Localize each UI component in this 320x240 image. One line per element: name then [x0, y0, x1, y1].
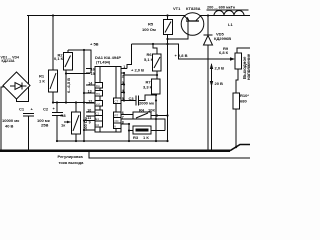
resistor R1 1K	[49, 16, 58, 103]
node dot divider mid	[156, 74, 158, 76]
svg-text:680: 680	[240, 99, 247, 104]
pin gnd stub	[84, 129, 95, 131]
wire feedback line	[132, 44, 232, 59]
node dots R4 right	[166, 114, 168, 116]
IC DA1 TL494 body	[95, 66, 121, 132]
label R7	[143, 80, 153, 90]
capacitor C2 100uF 25V	[52, 103, 63, 142]
resistor R2 0.1K	[64, 50, 73, 103]
label R5	[142, 22, 156, 33]
node dot R8 top	[75, 101, 77, 103]
label C3 2000	[129, 96, 154, 106]
pin 4	[121, 92, 124, 94]
node dot R1 bottom	[52, 101, 54, 103]
svg-text:VT1: VT1	[173, 6, 181, 11]
pin 8	[121, 123, 129, 125]
wire base junction to VT1 base	[168, 35, 189, 39]
label R9	[219, 46, 229, 55]
label VD1...VD4 КД213А	[1, 55, 20, 63]
IC service boxes left column	[95, 83, 103, 128]
svg-text:R8: R8	[61, 113, 67, 118]
svg-text:CT: CT	[115, 100, 119, 104]
wire pin2 vertical to divider and C3	[123, 73, 125, 101]
svg-text:6,8 К: 6,8 К	[219, 50, 229, 55]
svg-text:R10*: R10*	[240, 93, 249, 98]
node dot R2 bottom	[65, 101, 67, 103]
wire bridge bottom corner to C1	[17, 99, 29, 102]
svg-text:C1: C1	[96, 112, 100, 116]
node dot R2 bottom junction	[65, 72, 67, 74]
wire secondary ground W1	[57, 140, 168, 142]
svg-text:E1: E1	[96, 117, 100, 121]
svg-text:1к: 1к	[61, 123, 65, 128]
svg-text:10000 мк: 10000 мк	[2, 118, 19, 123]
svg-text:10К: 10К	[148, 108, 155, 113]
svg-text:12: 12	[88, 100, 92, 104]
node dot on W3 crossing	[83, 101, 85, 103]
svg-text:Регулировка: Регулировка	[58, 154, 84, 159]
svg-text:R3: R3	[133, 135, 139, 140]
svg-text:6: 6	[122, 111, 124, 115]
wire long vertical from +5V node down to gnd wire	[83, 50, 85, 141]
pin 2	[121, 72, 124, 74]
IC service boxes right column	[114, 98, 122, 129]
wire riser rail to bridge plus corner and C1	[28, 16, 30, 103]
svg-text:ПЧ: ПЧ	[96, 92, 100, 96]
node dot +5V branch	[83, 49, 85, 51]
svg-text:КД2996В: КД2996В	[214, 36, 231, 41]
wire +5V from R2 top to IC pins 16/15	[68, 50, 91, 73]
svg-text:25В: 25В	[41, 123, 48, 128]
svg-text:5,1 К: 5,1 К	[144, 57, 154, 62]
node dots on bus	[27, 150, 29, 152]
label C2	[37, 106, 56, 128]
pin 13	[84, 92, 95, 94]
svg-text:ОС: ОС	[115, 119, 119, 123]
pin 10	[86, 111, 95, 113]
svg-text:20 В: 20 В	[215, 81, 224, 86]
node dot R1 branch on rail	[52, 14, 54, 16]
svg-text:0...6,5 В: 0...6,5 В	[66, 78, 71, 93]
node dot R5 bottom base junction	[166, 38, 168, 40]
svg-text:+U: +U	[96, 102, 100, 106]
svg-text:9: 9	[89, 121, 91, 125]
resistor R3 1K current sense	[129, 126, 165, 134]
svg-text:DA: DA	[96, 84, 100, 88]
svg-text:8: 8	[122, 121, 124, 125]
resistor R7 3.3K	[152, 79, 161, 141]
svg-text:тока выхода: тока выхода	[59, 160, 85, 165]
ground bus	[0, 145, 250, 151]
label R2	[54, 53, 64, 62]
resistor R5 100 Ohm	[164, 16, 173, 40]
pin 1	[121, 68, 127, 70]
pin 9	[84, 120, 95, 122]
wire R2 bottom to pin 15	[66, 73, 90, 75]
label R8	[61, 113, 89, 131]
svg-text:13: 13	[88, 90, 92, 94]
wire drive vertical	[167, 39, 169, 141]
wire divider mid to pin2	[124, 74, 157, 76]
pot R4 10K	[133, 112, 168, 119]
svg-text:(TL494): (TL494)	[96, 60, 111, 65]
label output voltage rotated	[242, 53, 251, 80]
trimmer R6 5.1K	[153, 44, 162, 79]
svg-text:40 В: 40 В	[5, 124, 14, 129]
svg-text:RT: RT	[115, 114, 119, 118]
svg-text:100 Ом: 100 Ом	[142, 27, 156, 32]
label current adjust	[58, 154, 85, 165]
svg-text:16: 16	[91, 67, 95, 71]
svg-text:2: 2	[122, 74, 124, 78]
svg-text:15: 15	[91, 72, 95, 76]
wire pin5/C3	[124, 100, 136, 102]
pin 5	[121, 100, 124, 102]
label VT1	[173, 6, 201, 11]
svg-text:0,1 К: 0,1 К	[54, 56, 64, 61]
node dot switch node	[207, 14, 209, 16]
svg-text:R5: R5	[148, 22, 154, 27]
pot R9 6.8K	[235, 53, 242, 69]
svg-text:2,0 В: 2,0 В	[215, 66, 225, 71]
svg-text:1: 1	[123, 65, 125, 69]
wire top rail left segment	[27, 15, 185, 17]
svg-text:1 К: 1 К	[143, 135, 149, 140]
resistor R10 680	[233, 93, 240, 147]
svg-text:L1: L1	[228, 22, 233, 27]
transistor VT1 KT825A	[181, 13, 204, 36]
svg-text:C2: C2	[43, 107, 49, 112]
svg-text:200 ... 600 мкГн: 200 ... 600 мкГн	[207, 6, 236, 10]
pin 16	[86, 68, 91, 70]
wire lower output rail	[89, 152, 250, 159]
pin 6	[121, 114, 133, 116]
wire top rail right segment	[200, 15, 250, 17]
svg-text:напряжение: напряжение	[246, 53, 250, 80]
diode VD5	[204, 16, 213, 151]
svg-text:C3: C3	[129, 96, 135, 101]
svg-text:3,3 К: 3,3 К	[143, 85, 153, 90]
label R10	[240, 93, 249, 104]
wire pin1 to feedback line	[127, 44, 132, 69]
svg-text:R4: R4	[139, 108, 145, 113]
diode bridge VD1-VD4	[3, 72, 30, 99]
svg-text:+ 5В: + 5В	[90, 42, 99, 47]
svg-text:+ 2,8 В: + 2,8 В	[175, 53, 188, 58]
svg-text:+ 2,0 В: + 2,0 В	[131, 68, 144, 73]
annotation voltage range arrows	[210, 63, 213, 151]
svg-text:C2: C2	[96, 123, 100, 127]
label C1	[2, 107, 34, 129]
wire R9 top to output edge	[237, 48, 250, 53]
label R6	[144, 52, 154, 62]
node dot R7 bottom / C3	[155, 94, 157, 96]
svg-text:10: 10	[87, 109, 91, 113]
pin 12	[86, 102, 95, 104]
pin 14	[86, 84, 95, 86]
capacitor C3	[136, 95, 156, 106]
label R1 1K	[39, 74, 71, 94]
IC tiny inner glyphs	[96, 84, 119, 129]
capacitor C1 10000uF 40V	[23, 114, 34, 151]
label R3	[133, 135, 149, 140]
label R4	[139, 108, 155, 113]
svg-text:КД213А: КД213А	[2, 59, 15, 63]
wire R9 to R10	[236, 69, 238, 93]
svg-text:1 К: 1 К	[39, 79, 45, 84]
svg-text:КТ825А: КТ825А	[186, 6, 201, 11]
wire pin8 down	[128, 124, 130, 141]
label DA1	[95, 55, 121, 65]
wire bridge minus corner down to ground bus	[1, 86, 3, 151]
inductor L1	[214, 11, 244, 16]
svg-text:C1: C1	[19, 107, 25, 112]
underline inductance value	[207, 9, 249, 11]
node dot R5 top	[166, 14, 168, 16]
pin 11	[86, 115, 95, 117]
pin 15	[86, 72, 91, 74]
pin 3	[121, 84, 124, 86]
svg-text:11: 11	[87, 116, 91, 120]
svg-text:7: 7	[122, 116, 124, 120]
wire vcc node horizontal w3	[53, 102, 94, 104]
node dot C2 top	[56, 101, 58, 103]
trimmer R8	[64, 103, 81, 142]
svg-text:2000 мк: 2000 мк	[139, 101, 154, 106]
label VD5	[214, 31, 231, 41]
label L1	[207, 6, 236, 28]
pin 7	[121, 119, 165, 131]
svg-text:14: 14	[88, 82, 92, 86]
